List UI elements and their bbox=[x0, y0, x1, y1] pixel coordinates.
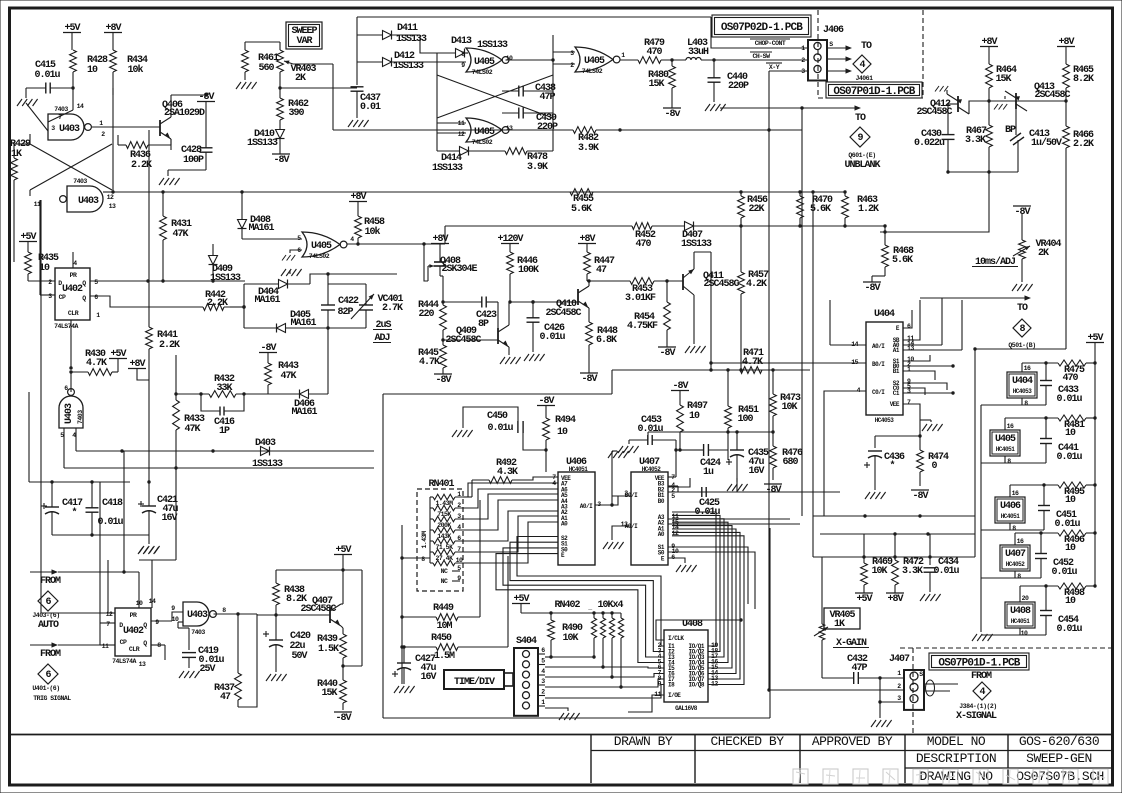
svg-text:74LS02: 74LS02 bbox=[309, 253, 330, 260]
wire bbox=[980, 405, 982, 632]
wire bbox=[276, 568, 362, 571]
resistor R438 bbox=[273, 570, 307, 615]
svg-text:16: 16 bbox=[1024, 365, 1031, 372]
svg-text:U408: U408 bbox=[682, 619, 703, 630]
resistor R469 bbox=[861, 557, 893, 585]
svg-text:CH-SW: CH-SW bbox=[752, 53, 770, 60]
wire bbox=[506, 129, 554, 131]
ground bbox=[282, 255, 295, 261]
svg-text:PR: PR bbox=[130, 612, 137, 619]
resistor R464 bbox=[986, 64, 1017, 101]
resistor R492 bbox=[472, 458, 558, 483]
wire bbox=[214, 612, 258, 615]
svg-text:0.01u: 0.01u bbox=[637, 424, 663, 435]
svg-text:10M: 10M bbox=[436, 621, 452, 632]
resistor R473 bbox=[770, 370, 801, 432]
svg-text:9: 9 bbox=[461, 62, 465, 69]
svg-text:-8V: -8V bbox=[864, 283, 880, 294]
svg-text:X-Y: X-Y bbox=[769, 64, 780, 71]
svg-text:CLR: CLR bbox=[129, 646, 140, 653]
wire bbox=[800, 218, 845, 226]
net CH-SW bbox=[750, 52, 772, 60]
resistor R468 bbox=[872, 226, 914, 282]
svg-text:2.2K: 2.2K bbox=[1073, 139, 1094, 150]
dashed box J406 bbox=[818, 10, 923, 98]
wire bbox=[72, 252, 74, 268]
wire bbox=[545, 679, 664, 689]
resistor R457 bbox=[738, 218, 769, 372]
wire bbox=[245, 41, 280, 43]
svg-text:Q: Q bbox=[82, 280, 86, 287]
power -8V bbox=[911, 490, 929, 502]
svg-text:MA161: MA161 bbox=[291, 407, 317, 418]
svg-text:MODEL NO: MODEL NO bbox=[927, 734, 986, 749]
resistor R428 bbox=[70, 50, 108, 88]
svg-text:-8V: -8V bbox=[335, 713, 351, 724]
svg-text:_: _ bbox=[587, 604, 592, 611]
wire bbox=[676, 449, 690, 451]
resistor R441 bbox=[146, 327, 180, 351]
multiplexer U404 bbox=[851, 309, 914, 424]
wire bbox=[864, 516, 975, 565]
wire bbox=[112, 88, 114, 95]
wire bbox=[903, 310, 912, 328]
svg-text:PR: PR bbox=[70, 272, 77, 279]
capacitor C432 bbox=[822, 640, 904, 684]
wire bbox=[903, 298, 942, 345]
wire vertical bbox=[139, 468, 176, 560]
svg-text:6.8K: 6.8K bbox=[596, 335, 617, 346]
resistor R448 bbox=[586, 322, 618, 346]
wire bbox=[347, 226, 445, 281]
capacitor C450 bbox=[463, 407, 548, 452]
svg-text:10K: 10K bbox=[781, 402, 797, 413]
svg-text:MA161: MA161 bbox=[290, 318, 316, 329]
wire bbox=[463, 480, 472, 497]
svg-text:7403: 7403 bbox=[191, 629, 205, 636]
diode D414 bbox=[432, 147, 505, 175]
svg-text:16V: 16V bbox=[748, 466, 764, 477]
wire bbox=[420, 35, 437, 151]
label Q601-(E) UNBLANK bbox=[844, 152, 880, 171]
svg-text:12: 12 bbox=[458, 131, 465, 138]
wire bbox=[509, 300, 578, 303]
svg-text:10Kx4: 10Kx4 bbox=[597, 600, 623, 611]
svg-text:J4061: J4061 bbox=[855, 75, 873, 82]
label FROM bbox=[40, 576, 61, 587]
wire bbox=[587, 279, 591, 282]
resistor R458 bbox=[355, 216, 385, 244]
svg-text:D413: D413 bbox=[451, 36, 472, 47]
svg-text:NC: NC bbox=[441, 568, 448, 575]
svg-text:-8V: -8V bbox=[435, 375, 451, 386]
svg-text:B0/I: B0/I bbox=[872, 361, 885, 368]
svg-text:4: 4 bbox=[541, 668, 545, 675]
ground bbox=[139, 535, 160, 553]
bypass U406 C451 R495 bbox=[981, 482, 1097, 532]
multiplexer U406 bbox=[552, 457, 601, 565]
svg-text:0.01u: 0.01u bbox=[34, 70, 60, 81]
resistor network RN401 bbox=[417, 479, 463, 591]
wire bbox=[668, 478, 690, 487]
svg-text:4.7K: 4.7K bbox=[419, 357, 440, 368]
svg-text:MA161: MA161 bbox=[254, 295, 280, 306]
svg-text:5: 5 bbox=[94, 279, 98, 286]
svg-text:13: 13 bbox=[109, 203, 116, 210]
gate U405B bbox=[458, 118, 513, 146]
svg-text:U407: U407 bbox=[1005, 549, 1026, 560]
ground bbox=[618, 440, 639, 453]
svg-text:C0/I: C0/I bbox=[872, 389, 885, 396]
capacitor C418 bbox=[86, 482, 124, 535]
svg-text:OS07P01D-1.PCB: OS07P01D-1.PCB bbox=[938, 658, 1020, 670]
resistor R480 bbox=[648, 60, 675, 104]
svg-text:0.01u: 0.01u bbox=[97, 517, 123, 528]
resistor R474 bbox=[917, 434, 949, 486]
pcb label OS07P01D-1.PCB bbox=[826, 82, 922, 98]
resistor R472 bbox=[892, 557, 924, 585]
resistor R490 bbox=[548, 613, 583, 657]
label J407 bbox=[889, 654, 910, 665]
svg-text:74LS02: 74LS02 bbox=[472, 69, 493, 76]
resistor R463 bbox=[842, 190, 879, 218]
svg-text:U405: U405 bbox=[311, 241, 332, 252]
wire bbox=[72, 88, 74, 110]
svg-text:1: 1 bbox=[621, 52, 625, 59]
capacitor C425 bbox=[668, 478, 737, 518]
ground bbox=[727, 484, 748, 491]
svg-text:100P: 100P bbox=[183, 155, 204, 166]
connector J406 bbox=[801, 40, 833, 81]
wire bbox=[973, 347, 1066, 516]
svg-text:8: 8 bbox=[222, 607, 226, 614]
wire bus bbox=[593, 190, 743, 193]
svg-text:U403: U403 bbox=[187, 610, 208, 621]
svg-text:3.3K: 3.3K bbox=[902, 566, 923, 577]
wire bbox=[628, 695, 664, 712]
svg-text:2SC458C: 2SC458C bbox=[545, 308, 581, 319]
svg-text:HC4051: HC4051 bbox=[569, 466, 589, 473]
ground bbox=[865, 492, 886, 499]
svg-text:S: S bbox=[829, 41, 833, 48]
bypass U405 C441 R481 bbox=[981, 415, 1097, 465]
power +5V bbox=[63, 23, 81, 50]
svg-text:TO: TO bbox=[855, 113, 866, 124]
svg-text:+5V: +5V bbox=[856, 594, 872, 605]
power +8V bbox=[578, 234, 596, 252]
power +8V bbox=[349, 192, 367, 216]
diode D410 bbox=[247, 128, 285, 150]
svg-text:74LS02: 74LS02 bbox=[472, 139, 493, 146]
svg-text:2SC458C: 2SC458C bbox=[1034, 90, 1070, 101]
label X-GAIN bbox=[833, 638, 869, 649]
wire bus bbox=[76, 449, 374, 452]
wire bbox=[238, 614, 257, 707]
wire arrow bbox=[720, 105, 861, 516]
wire arrow bbox=[30, 642, 100, 647]
wire arrow bbox=[30, 569, 139, 574]
svg-text:2: 2 bbox=[541, 689, 545, 696]
connector J407 bbox=[897, 670, 924, 710]
svg-text:VEE: VEE bbox=[890, 401, 900, 408]
svg-text:0.01u: 0.01u bbox=[1051, 567, 1077, 578]
svg-text:1.5K: 1.5K bbox=[318, 644, 339, 655]
svg-text:U404: U404 bbox=[1012, 376, 1033, 387]
svg-text:2.2K: 2.2K bbox=[159, 340, 180, 351]
wire bbox=[545, 674, 664, 679]
svg-text:4.75KF: 4.75KF bbox=[627, 321, 658, 332]
svg-text:HC4051: HC4051 bbox=[1001, 513, 1021, 520]
svg-text:15K: 15K bbox=[995, 74, 1011, 85]
wire bbox=[100, 644, 115, 646]
wire staircase bbox=[672, 512, 744, 685]
svg-text:DESCRIPTION: DESCRIPTION bbox=[916, 751, 996, 766]
wire bus bbox=[64, 467, 374, 469]
transistor Q409 bbox=[445, 302, 509, 355]
ground bbox=[935, 86, 948, 94]
svg-text:D411: D411 bbox=[397, 23, 418, 34]
ground bbox=[685, 295, 706, 353]
power -8V bbox=[671, 381, 689, 405]
svg-text:82P: 82P bbox=[337, 307, 353, 318]
wire bbox=[668, 547, 748, 604]
svg-text:10: 10 bbox=[557, 427, 568, 438]
svg-text:47K: 47K bbox=[172, 229, 188, 240]
resistor R494 bbox=[543, 415, 576, 450]
ground bbox=[17, 88, 38, 106]
resistor R437 bbox=[214, 614, 241, 707]
svg-text:C450: C450 bbox=[487, 411, 508, 422]
svg-text:10: 10 bbox=[1065, 428, 1076, 439]
wire bbox=[29, 392, 130, 484]
svg-text:Q: Q bbox=[82, 295, 86, 302]
svg-text:7403: 7403 bbox=[77, 410, 84, 424]
svg-text:U403: U403 bbox=[78, 196, 99, 207]
diode D412 bbox=[357, 51, 437, 72]
wire bus bbox=[813, 555, 975, 558]
svg-text:8: 8 bbox=[1024, 400, 1028, 407]
wire bbox=[668, 552, 755, 609]
wire bbox=[290, 250, 302, 253]
title text DRAWN BY bbox=[614, 734, 673, 749]
wire bus bbox=[108, 191, 845, 193]
svg-text:HC4052: HC4052 bbox=[642, 466, 662, 473]
svg-text:FROM: FROM bbox=[40, 576, 61, 587]
svg-text:4.2K: 4.2K bbox=[746, 279, 767, 290]
svg-text:1P: 1P bbox=[219, 426, 230, 437]
svg-text:HC4053: HC4053 bbox=[1013, 388, 1033, 395]
capacitor C419 bbox=[182, 646, 224, 675]
svg-text:CP: CP bbox=[59, 294, 66, 301]
svg-text:1K: 1K bbox=[11, 149, 22, 160]
label TO bbox=[855, 113, 866, 124]
title text DRAWING NO bbox=[919, 769, 993, 784]
svg-text:0.022u: 0.022u bbox=[914, 138, 945, 149]
wire bbox=[506, 58, 555, 61]
svg-text:25V: 25V bbox=[199, 664, 215, 675]
svg-text:8: 8 bbox=[1017, 573, 1021, 580]
wire bbox=[437, 123, 466, 133]
svg-text:IO/Q8: IO/Q8 bbox=[688, 682, 704, 689]
power +8V bbox=[128, 359, 149, 380]
svg-text:100: 100 bbox=[737, 414, 753, 425]
wire bbox=[903, 364, 955, 367]
title text OS07S07B.SCH bbox=[1016, 769, 1104, 784]
svg-text:220P: 220P bbox=[728, 81, 749, 92]
capacitor C435 bbox=[726, 432, 769, 482]
resistor R430 bbox=[69, 349, 118, 375]
svg-text:3.3K: 3.3K bbox=[965, 135, 986, 146]
label FROM bbox=[40, 649, 61, 660]
wire bbox=[151, 560, 153, 608]
capacitor C423 bbox=[441, 297, 498, 331]
svg-text:1SS133: 1SS133 bbox=[396, 34, 427, 45]
transistor Q406 bbox=[160, 95, 205, 150]
resistor R476 bbox=[770, 432, 803, 480]
svg-text:74LS02: 74LS02 bbox=[582, 68, 603, 75]
svg-text:6: 6 bbox=[541, 647, 545, 654]
ground bbox=[138, 547, 159, 554]
svg-text:FROM: FROM bbox=[40, 649, 61, 660]
gate U405C bbox=[570, 47, 625, 75]
wire bbox=[30, 144, 112, 190]
svg-text:VAR: VAR bbox=[296, 36, 312, 47]
svg-text:FROM: FROM bbox=[971, 671, 992, 682]
svg-text:TO: TO bbox=[1017, 303, 1028, 314]
svg-text:I/CLK: I/CLK bbox=[668, 635, 684, 642]
resistor R482 bbox=[540, 127, 622, 154]
power -8V bbox=[537, 396, 555, 418]
power +120V bbox=[497, 234, 523, 252]
wire bbox=[545, 685, 664, 699]
svg-text:47K: 47K bbox=[280, 371, 296, 382]
svg-text:10: 10 bbox=[172, 616, 179, 623]
svg-text:HC4053: HC4053 bbox=[875, 417, 895, 424]
capacitor C420 bbox=[263, 615, 311, 672]
svg-text:6: 6 bbox=[94, 294, 98, 301]
svg-text:B0: B0 bbox=[658, 498, 665, 505]
svg-text:2: 2 bbox=[48, 279, 52, 286]
svg-text:1SS133: 1SS133 bbox=[681, 239, 712, 250]
wire bbox=[824, 391, 866, 516]
resistor R429 bbox=[10, 139, 31, 262]
svg-text:16: 16 bbox=[1007, 423, 1014, 430]
ground bbox=[452, 430, 473, 437]
svg-text:560: 560 bbox=[258, 63, 274, 74]
wire bbox=[875, 436, 920, 448]
wire bus bbox=[820, 532, 975, 535]
wire bbox=[333, 64, 540, 130]
svg-text:1: 1 bbox=[897, 670, 901, 677]
wire arrow bbox=[828, 56, 852, 61]
power -8V bbox=[259, 343, 277, 363]
svg-text:U402: U402 bbox=[123, 626, 144, 637]
svg-text:13: 13 bbox=[621, 521, 628, 528]
wire bbox=[709, 252, 712, 372]
power +8V bbox=[980, 37, 998, 64]
svg-text:CLR: CLR bbox=[68, 310, 79, 317]
wire staircase bbox=[455, 483, 558, 563]
svg-text:A0/I: A0/I bbox=[872, 343, 885, 350]
diode D404 bbox=[244, 280, 310, 307]
svg-text:C418: C418 bbox=[102, 498, 123, 509]
capacitor C437 bbox=[348, 87, 381, 127]
svg-text:1K: 1K bbox=[834, 619, 845, 630]
wire bbox=[40, 200, 55, 295]
gate U405D bbox=[297, 232, 354, 260]
wire bbox=[903, 404, 920, 436]
label U401-(6) TRIG SIGNAL bbox=[32, 685, 71, 702]
wire bbox=[70, 372, 72, 392]
svg-text:1.5M: 1.5M bbox=[434, 651, 455, 662]
svg-text:7: 7 bbox=[106, 621, 110, 628]
resistor R436 bbox=[118, 135, 171, 171]
power -8V bbox=[434, 368, 452, 386]
svg-text:10k: 10k bbox=[127, 64, 143, 76]
resistor R449 bbox=[400, 603, 480, 632]
ground bbox=[524, 354, 545, 361]
svg-text:X-SIGNAL: X-SIGNAL bbox=[956, 711, 997, 722]
power +8V bbox=[431, 234, 449, 252]
svg-text:B1: B1 bbox=[893, 368, 900, 375]
svg-text:UNBLANK: UNBLANK bbox=[844, 160, 880, 171]
power +5V bbox=[512, 594, 530, 613]
power -8V bbox=[197, 92, 215, 103]
svg-text:11: 11 bbox=[102, 643, 109, 650]
wire arrow bbox=[828, 68, 852, 73]
svg-text:470: 470 bbox=[1062, 373, 1078, 384]
svg-text:9: 9 bbox=[658, 681, 662, 688]
svg-text:GAL16V8: GAL16V8 bbox=[675, 705, 698, 712]
ground bbox=[266, 674, 287, 681]
svg-text:D: D bbox=[58, 280, 62, 287]
svg-text:NC: NC bbox=[441, 578, 448, 585]
watermark bbox=[793, 769, 1108, 784]
resistor R462 bbox=[277, 86, 309, 128]
wire bbox=[108, 560, 115, 613]
svg-text:7403: 7403 bbox=[54, 106, 68, 113]
wire vertical bbox=[123, 451, 125, 572]
wire bbox=[595, 451, 629, 507]
svg-text:U405: U405 bbox=[584, 56, 605, 67]
wire bbox=[437, 53, 468, 62]
wire bbox=[903, 371, 935, 380]
svg-text:0.01u: 0.01u bbox=[1054, 519, 1080, 530]
svg-text:14: 14 bbox=[77, 103, 84, 110]
svg-text:470: 470 bbox=[646, 47, 662, 58]
ground bbox=[972, 634, 993, 641]
wire nest bbox=[496, 537, 664, 663]
svg-text:0.01u: 0.01u bbox=[1056, 452, 1082, 463]
svg-text:-8V: -8V bbox=[912, 491, 928, 502]
power +5V bbox=[1086, 333, 1104, 363]
wire bbox=[100, 622, 115, 624]
svg-text:A0/I: A0/I bbox=[580, 503, 593, 510]
title text MODEL NO bbox=[927, 734, 986, 749]
svg-text:HC4051: HC4051 bbox=[1011, 618, 1031, 625]
svg-text:4: 4 bbox=[73, 260, 77, 267]
wire bbox=[878, 678, 904, 718]
wire bbox=[727, 450, 729, 460]
diode D411 bbox=[357, 23, 427, 45]
power -8V bbox=[658, 330, 676, 359]
capacitor C436 bbox=[864, 451, 905, 490]
wire bbox=[443, 339, 498, 341]
wire bbox=[280, 87, 357, 89]
svg-text:13: 13 bbox=[907, 345, 914, 352]
svg-text:U405: U405 bbox=[474, 127, 495, 138]
wire bbox=[612, 496, 631, 505]
